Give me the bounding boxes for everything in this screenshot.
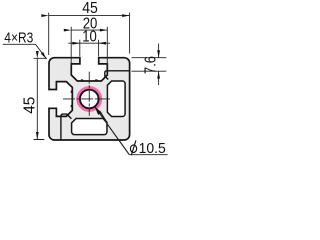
dim 45 top: dimension line [49,15,130,17]
internal arm line, bottom-left closed side [61,114,72,140]
dim 20: dimension line [71,29,107,31]
dim 10: extension lines [80,40,99,57]
label 4xR3 underline and leader arrow [3,44,47,59]
dim 45 left: dimension line [36,58,38,139]
extrusion profile body (45x45, open T-slots top and left) [49,58,130,140]
label φ10.5 leader [95,106,130,154]
dim 7.6: extension lines [132,58,167,71]
dim 45 left: extension lines [34,58,47,139]
label φ10.5 underline [129,154,167,156]
label φ10.5 text [130,140,136,155]
dim 20: extension lines [71,27,107,66]
svg-text:10: 10 [82,28,97,45]
svg-text:45: 45 [82,0,98,17]
bottom closed-slot cavity [72,119,107,135]
left slot floor ribs [71,91,73,108]
dim 45 top: extension lines [49,13,130,55]
dim 7.6: arrows outside [158,44,160,58]
right closed-slot cavity [107,81,125,117]
dim 10: dimension line with outside arrows [80,42,99,44]
svg-text:10.5: 10.5 [139,141,166,157]
internal arm line, top-right closed side [105,71,130,80]
magenta highlight ring [78,88,100,110]
horizontal centerline [63,98,110,100]
svg-text:45: 45 [22,97,39,114]
vertical centerline [88,72,90,116]
top slot floor ribs [81,79,98,81]
center hole φ10.5 [80,90,99,109]
svg-text:7.6: 7.6 [143,56,160,74]
web edge (between cavities, parallel to leader) [100,111,107,123]
